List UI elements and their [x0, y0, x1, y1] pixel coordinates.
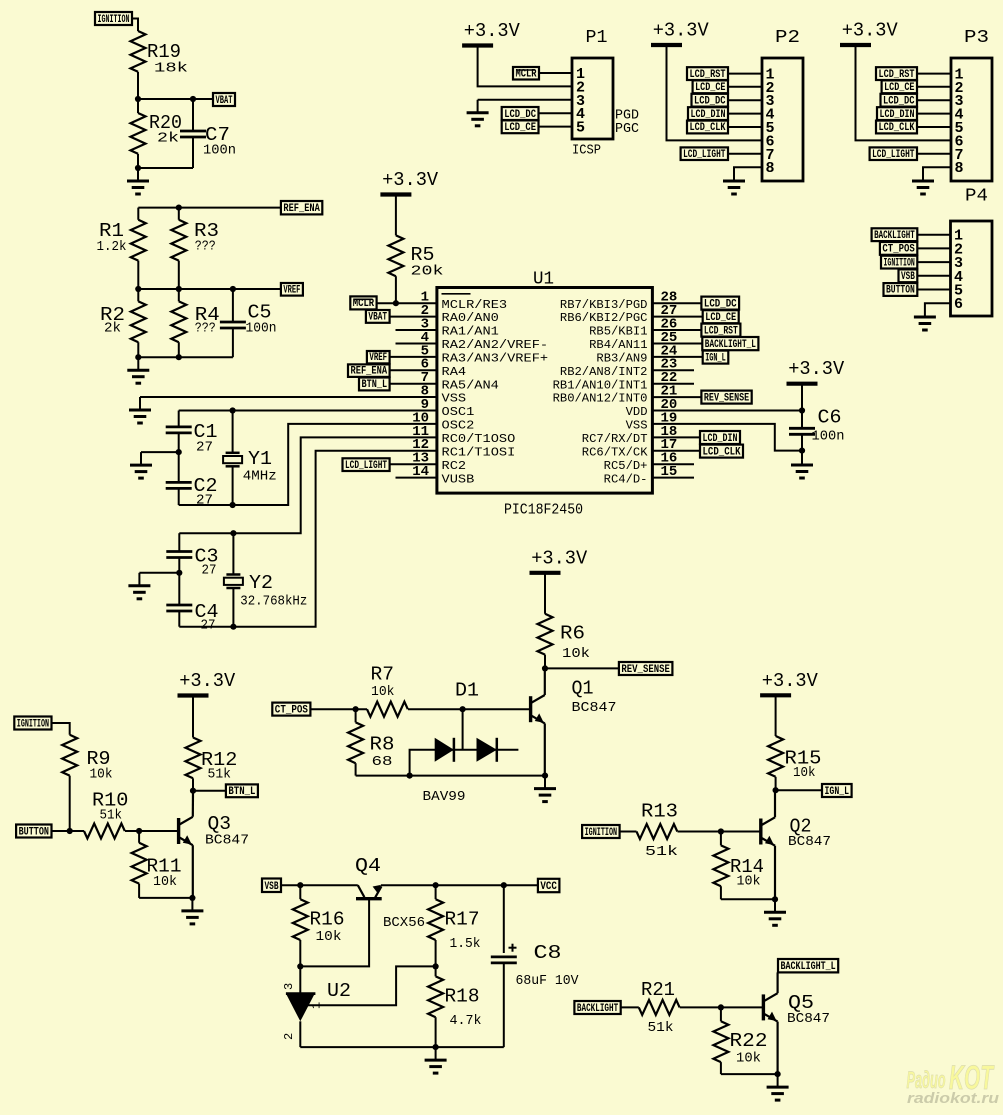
net label VREF	[281, 283, 303, 296]
wire U1 pin 24	[652, 356, 702, 358]
svg-text:RA4: RA4	[442, 365, 467, 379]
svg-text:R16: R16	[310, 909, 345, 931]
svg-text:P4: P4	[965, 187, 988, 207]
wire +3.3V to R5	[395, 195, 397, 236]
resistor R8	[355, 709, 357, 722]
net label BACKLIGHT at P4 pin 1	[872, 228, 918, 241]
wire IGNITION to R19	[132, 19, 138, 32]
svg-text:LCD_RST: LCD_RST	[879, 69, 915, 81]
resistor R13	[637, 824, 678, 839]
svg-text:???: ???	[195, 321, 216, 337]
wire P2 pin 8 to ground	[734, 166, 762, 169]
wire +3.3V to R15	[775, 695, 777, 736]
svg-text:27: 27	[196, 440, 213, 456]
power +3.3V at P1	[462, 43, 493, 47]
wire Q1 collector	[544, 668, 546, 695]
svg-text:3: 3	[282, 983, 296, 990]
capacitor C8 electrolytic	[503, 885, 505, 953]
wire C3/C4 midpoint to ground	[139, 572, 179, 574]
svg-text:LCD_LIGHT: LCD_LIGHT	[345, 460, 387, 472]
wire IGNITION to R9	[52, 723, 70, 735]
svg-text:VDD: VDD	[626, 405, 648, 419]
wire REF_ENA to U1 pin 6	[390, 369, 437, 371]
wire U1 pin 23 stub	[652, 369, 694, 371]
power +3.3V above C6	[787, 382, 818, 386]
svg-text:51k: 51k	[208, 767, 232, 783]
wire VSB to Q4 collector rail	[281, 884, 358, 886]
ground at C1/C2 midpoint	[140, 452, 142, 465]
wire LCD_LIGHT to U1 pin 13	[390, 463, 437, 465]
svg-text:BC847: BC847	[788, 834, 831, 850]
svg-text:LCD_CE: LCD_CE	[695, 82, 726, 94]
capacitor C7	[192, 99, 194, 131]
svg-text:27: 27	[201, 618, 216, 634]
wire U1 pin 28	[652, 302, 701, 304]
wire R13 to Q2 base	[678, 831, 761, 833]
svg-text:20k: 20k	[411, 263, 444, 279]
wire P3 pin 2	[917, 86, 951, 88]
svg-text:10k: 10k	[736, 1051, 761, 1067]
wire BACKLIGHT to R21	[621, 1006, 639, 1008]
svg-text:LCD_DIN: LCD_DIN	[691, 109, 726, 121]
wire REF_ENA rail	[138, 207, 281, 209]
net label BTN_L at pin 7	[359, 378, 390, 391]
svg-text:CT_POS: CT_POS	[882, 244, 915, 256]
svg-text:P2: P2	[775, 28, 800, 48]
capacitor C5	[232, 289, 234, 322]
wire P3 pin 7	[917, 153, 951, 155]
net label BACKLIGHT_L at pin 25	[702, 337, 758, 350]
svg-text:RC5/D+: RC5/D+	[604, 459, 648, 473]
svg-text:51k: 51k	[100, 808, 123, 824]
resistor R7	[367, 702, 408, 717]
ground at P4 pin 6	[924, 304, 926, 317]
net label BACKLIGHT at Q5	[574, 1001, 620, 1014]
wire U1 pin 22 stub	[652, 383, 694, 385]
resistor R15	[768, 736, 783, 777]
wire P4 pin 1	[917, 234, 950, 236]
crystal Y2	[232, 533, 234, 574]
svg-text:6: 6	[954, 296, 963, 313]
svg-text:LCD_DC: LCD_DC	[704, 298, 737, 310]
svg-text:27: 27	[196, 493, 213, 509]
svg-text:RC6/TX/CK: RC6/TX/CK	[582, 445, 649, 459]
wire +3.3V to R12	[192, 696, 194, 738]
svg-text:100n: 100n	[246, 321, 277, 337]
resistor R16	[299, 885, 301, 899]
wire R6 to REV_SENSE node	[544, 655, 546, 669]
svg-text:VCC: VCC	[540, 881, 557, 893]
svg-text:REV_SENSE: REV_SENSE	[704, 392, 750, 404]
wire P2 pin 5	[728, 126, 762, 128]
power +3.3V at P2	[651, 43, 682, 47]
wire Q4 bottom rail	[300, 1046, 504, 1048]
wire U1 pin 3 stub	[396, 329, 437, 331]
net label CT_POS	[272, 703, 310, 716]
svg-text:RB3/AN9: RB3/AN9	[596, 351, 647, 365]
net label IGNITION at Q3	[14, 717, 51, 730]
wire +3.3V to R6	[544, 573, 546, 614]
svg-text:18k: 18k	[154, 61, 188, 77]
wire BTN_L to U1 pin 7	[390, 383, 437, 385]
svg-text:R13: R13	[641, 801, 678, 823]
svg-text:BACKLIGHT: BACKLIGHT	[577, 1003, 619, 1015]
svg-text:4.7k: 4.7k	[450, 1013, 482, 1029]
svg-text:8: 8	[955, 160, 964, 177]
wire P4 pin 3	[917, 261, 950, 263]
wire U1 pin 21	[652, 396, 701, 398]
net label LCD_RST at P3 pin 1	[876, 67, 917, 80]
net label MCLR at P1 pin 1	[513, 67, 539, 80]
power +3.3V at P3	[840, 43, 871, 47]
wire P1 pin 5	[539, 126, 573, 128]
wire R11 to Q3 emitter node	[139, 897, 192, 899]
svg-text:10k: 10k	[371, 684, 395, 700]
net label LCD_RST at pin 26	[701, 324, 740, 337]
svg-text:1.2k: 1.2k	[97, 239, 127, 255]
ground at P3 pin 8	[922, 168, 924, 181]
svg-text:REF_ENA: REF_ENA	[351, 366, 388, 378]
net label VSB at P4 pin 4	[899, 269, 918, 282]
svg-text:RC7/RX/DT: RC7/RX/DT	[582, 432, 648, 446]
ground at P2 pin 8	[733, 168, 735, 181]
svg-text:RA5/AN4: RA5/AN4	[442, 378, 499, 392]
ground below R18	[435, 1047, 437, 1060]
net label BTN_L at Q3	[226, 784, 258, 797]
wire P3 pin 4	[917, 113, 951, 115]
svg-text:P3: P3	[964, 28, 989, 48]
wire Q2 collector	[774, 790, 776, 817]
resistor R14	[720, 832, 722, 846]
net label LCD_DC at pin 28	[701, 297, 739, 310]
svg-text:VBAT: VBAT	[368, 312, 387, 324]
svg-text:ICSP: ICSP	[572, 143, 601, 159]
wire P2 pin 4	[728, 113, 762, 115]
wire OSC1 rail pin 9	[179, 410, 437, 412]
svg-text:LCD_CLK: LCD_CLK	[690, 122, 726, 134]
svg-text:IGN_L: IGN_L	[825, 786, 850, 798]
svg-text:VSB: VSB	[901, 271, 915, 283]
wire U1 pin 20 VDD to +3.3V C6 rail	[652, 410, 802, 412]
svg-text:RB6/KBI2/PGC: RB6/KBI2/PGC	[560, 311, 648, 325]
net label VBAT	[213, 93, 235, 106]
wire P3 pin 5	[917, 126, 951, 128]
svg-text:+3.3V: +3.3V	[464, 20, 521, 42]
svg-text:100n: 100n	[203, 143, 236, 159]
net label LCD_DIN at P3 pin 4	[877, 107, 917, 120]
ground below Q3	[191, 898, 193, 911]
svg-text:BUTTON: BUTTON	[886, 285, 915, 297]
svg-text:VBAT: VBAT	[216, 95, 233, 107]
svg-text:LCD_CE: LCD_CE	[884, 82, 915, 94]
svg-text:BACKLIGHT: BACKLIGHT	[874, 230, 915, 242]
svg-text:LCD_LIGHT: LCD_LIGHT	[683, 149, 726, 161]
wire U1 pin 27	[652, 316, 702, 318]
svg-text:BACKLIGHT_L: BACKLIGHT_L	[781, 961, 836, 973]
resistor R19	[131, 31, 146, 72]
svg-text:Y2: Y2	[249, 572, 273, 594]
svg-text:2k: 2k	[104, 321, 121, 337]
net label LCD_CLK at pin 17	[700, 445, 743, 458]
wire VREF to U1 pin 5	[390, 356, 437, 358]
wire Q4 emitter rail to R17/C8/VCC	[381, 884, 538, 886]
resistor R2	[137, 289, 139, 301]
svg-text:RC0/T1OSO: RC0/T1OSO	[442, 432, 516, 446]
wire R14 to Q2 emitter node	[721, 898, 775, 900]
net label VSB at Q4	[262, 879, 281, 893]
wire R7 to D1 node and Q1 base	[408, 708, 531, 710]
transistor Q2 BC847	[759, 819, 762, 845]
wire P1 pin 1	[539, 72, 572, 74]
wire MCLR to U1 pin 1	[377, 302, 437, 304]
svg-text:BUTTON: BUTTON	[19, 826, 49, 838]
wire U1 pin 16 stub	[652, 463, 694, 465]
net label LCD_LIGHT at P2 pin 7	[681, 147, 728, 160]
wire BUTTON to R10	[52, 830, 85, 832]
resistor R1	[137, 208, 139, 220]
svg-text:Q4: Q4	[355, 855, 381, 877]
wire VBAT to U1 pin 2	[390, 316, 437, 318]
transistor Q1 BC847	[529, 696, 532, 722]
svg-text:C8: C8	[534, 942, 562, 964]
wire OSC2 rail pin 10	[179, 424, 437, 505]
net label LCD_CE at P3 pin 2	[882, 80, 917, 93]
svg-text:MCLR/RE3: MCLR/RE3	[442, 298, 508, 312]
resistor R17	[435, 885, 437, 899]
svg-text:Y1: Y1	[248, 448, 272, 470]
wire IGNITION to R13	[620, 831, 637, 833]
wire R17/R18 node	[433, 963, 439, 969]
net label MCLR at pin 1	[350, 296, 376, 309]
wire R21 to Q5 base	[680, 1006, 764, 1008]
svg-text:VSS: VSS	[442, 392, 467, 406]
svg-text:10k: 10k	[562, 646, 590, 662]
svg-text:+3.3V: +3.3V	[179, 670, 236, 692]
ground below Q1 emitter	[544, 776, 546, 789]
capacitor C3	[178, 533, 180, 551]
svg-text:+3.3V: +3.3V	[788, 358, 845, 380]
svg-text:IGNITION: IGNITION	[884, 257, 915, 269]
net label REF_ENA	[281, 201, 322, 214]
svg-text:IGNITION: IGNITION	[17, 718, 49, 730]
wire R15 to IGN_L node	[775, 777, 777, 790]
net label LCD_CLK at P2 pin 5	[687, 121, 728, 134]
transistor Q4 BCX56	[356, 897, 382, 900]
svg-text:R8: R8	[370, 734, 395, 756]
wire +3.3V to P2 pin 6	[667, 45, 763, 140]
resistor R5	[388, 235, 403, 276]
svg-text:D1: D1	[455, 680, 479, 702]
net label IGN_L at Q2	[822, 784, 852, 797]
svg-text:LCD_DIN: LCD_DIN	[703, 433, 738, 445]
wire bottom rail R2/R4/C5	[138, 356, 233, 358]
connector P3 body	[951, 58, 992, 181]
svg-text:51k: 51k	[645, 844, 678, 860]
svg-text:VREF: VREF	[369, 352, 387, 364]
wire P1 pin 4	[539, 112, 573, 114]
svg-text:BAV99: BAV99	[423, 789, 466, 805]
resistor R4	[178, 289, 180, 301]
resistor R9	[62, 735, 77, 776]
wire Q4 base down to R16 node	[300, 900, 369, 967]
svg-text:RA3/AN3/VREF+: RA3/AN3/VREF+	[442, 351, 549, 365]
svg-text:LCD_RST: LCD_RST	[690, 69, 726, 81]
net label BUTTON	[16, 825, 51, 838]
resistor R22	[720, 1007, 722, 1021]
svg-text:4MHz: 4MHz	[243, 468, 277, 484]
svg-text:OSC2: OSC2	[442, 419, 475, 433]
svg-text:68uF 10V: 68uF 10V	[516, 973, 580, 989]
svg-text:radiokot.ru: radiokot.ru	[907, 1090, 999, 1107]
net label LCD_CE at pin 27	[703, 310, 739, 323]
wire P2 pin 7	[728, 153, 762, 155]
ground at C3/C4 midpoint	[138, 573, 140, 586]
svg-text:OSC1: OSC1	[442, 405, 475, 419]
wire P1 pin 3 to ground	[478, 99, 572, 101]
wire U1 pin 25	[652, 343, 702, 345]
wire U1 pin 15 stub	[652, 477, 694, 479]
net label IGNITION at Q2	[582, 825, 620, 838]
resistor R21	[639, 1000, 680, 1015]
wire U2 ref pin to R17/R18 node	[302, 966, 436, 1005]
svg-text:RA2/AN2/VREF-: RA2/AN2/VREF-	[442, 338, 549, 352]
svg-text:PIC18F2450: PIC18F2450	[504, 502, 583, 519]
net label BUTTON at P4 pin 5	[884, 283, 918, 296]
wire VREF rail	[138, 288, 281, 290]
svg-text:PGC: PGC	[615, 121, 639, 137]
svg-text:RB0/AN12/INT0: RB0/AN12/INT0	[553, 392, 648, 406]
wire +3.3V to C6	[801, 384, 803, 428]
svg-text:27: 27	[202, 563, 217, 579]
power +3.3V above R12	[178, 693, 209, 697]
transistor Q3 BC847	[177, 818, 180, 844]
wire Q2 emitter down	[774, 846, 776, 900]
net label IGN_L at pin 24	[703, 351, 729, 364]
net label LCD_CE at P1 pin 5	[502, 120, 539, 133]
svg-text:P1: P1	[586, 28, 608, 48]
wire P2 pin 3	[728, 99, 762, 101]
svg-text:10k: 10k	[737, 874, 761, 890]
svg-text:RB4/AN11: RB4/AN11	[589, 338, 647, 352]
svg-text:VREF: VREF	[283, 284, 300, 296]
svg-text:R18: R18	[445, 986, 480, 1008]
wire Q3 emitter down	[192, 845, 194, 898]
resistor R18	[428, 976, 443, 1017]
wire P3 pin 8 to ground	[923, 166, 951, 169]
net label LCD_RST at P2 pin 1	[687, 67, 728, 80]
svg-text:VSS: VSS	[626, 419, 648, 433]
wire U1 pin 17	[652, 450, 700, 452]
svg-text:U2: U2	[327, 980, 351, 1002]
net label CT_POS at P4 pin 2	[880, 242, 917, 255]
svg-text:VUSB: VUSB	[442, 472, 475, 486]
wire C1/C2 midpoint to ground	[141, 451, 179, 453]
svg-text:RA0/AN0: RA0/AN0	[442, 311, 499, 325]
resistor R6	[538, 614, 553, 655]
svg-text:Q1: Q1	[572, 678, 594, 700]
resistor R11	[138, 831, 140, 843]
svg-text:BTN_L: BTN_L	[228, 786, 255, 798]
net label BACKLIGHT_L at Q5 collector	[778, 959, 838, 972]
net label LCD_DIN at pin 18	[700, 431, 740, 444]
svg-text:LCD_DC: LCD_DC	[694, 95, 726, 107]
capacitor C6	[789, 427, 815, 430]
connector P2 body	[762, 58, 803, 181]
svg-text:LCD_DIN: LCD_DIN	[880, 109, 915, 121]
svg-text:IGNITION: IGNITION	[585, 827, 618, 839]
svg-text:10k: 10k	[316, 929, 342, 945]
ground at P1 pin 3	[477, 100, 479, 113]
connector P1 body	[572, 58, 613, 139]
svg-text:RB2/AN8/INT2: RB2/AN8/INT2	[560, 365, 648, 379]
svg-text:LCD_DC: LCD_DC	[504, 109, 536, 121]
svg-text:BACKLIGHT_L: BACKLIGHT_L	[705, 339, 756, 351]
power +3.3V above R5	[380, 192, 411, 196]
svg-text:1.5k: 1.5k	[450, 936, 481, 952]
net label REV_SENSE	[619, 662, 673, 675]
crystal Y1	[232, 411, 234, 453]
net label LCD_DC at P2 pin 3	[692, 94, 729, 107]
watermark RadioKOT logo	[907, 1059, 1000, 1107]
net label LCD_DC at P1 pin 4	[502, 107, 539, 120]
svg-text:RC1/T1OSI: RC1/T1OSI	[442, 445, 516, 459]
svg-text:RA1/AN1: RA1/AN1	[442, 325, 499, 339]
svg-text:BCX56: BCX56	[383, 915, 425, 931]
svg-text:???: ???	[195, 239, 216, 255]
wire R22 to Q5 emitter node	[721, 1073, 778, 1075]
wire Q5 emitter down	[776, 1022, 778, 1075]
svg-text:2: 2	[282, 1033, 296, 1040]
ground below R2	[137, 357, 139, 370]
power +3.3V above R15	[760, 693, 791, 697]
wire Y2 top rail pin 11	[179, 437, 437, 533]
svg-text:LCD_LIGHT: LCD_LIGHT	[872, 149, 915, 161]
connector P4 body	[951, 221, 993, 316]
wire U1 pin 4 stub	[396, 343, 437, 345]
wire CT_POS to R7	[310, 708, 367, 710]
svg-text:R17: R17	[445, 909, 480, 931]
wire Q3 collector	[192, 791, 194, 817]
svg-text:51k: 51k	[648, 1020, 674, 1036]
svg-text:BC847: BC847	[572, 700, 617, 716]
net label IGNITION	[95, 12, 132, 25]
svg-text:C6: C6	[818, 407, 842, 429]
wire P4 pin 4	[917, 275, 950, 277]
wire P4 pin 2	[917, 247, 950, 249]
svg-text:RB7/KBI3/PGD: RB7/KBI3/PGD	[560, 298, 648, 312]
ground below Q2	[774, 899, 776, 912]
ground below Q5	[777, 1074, 779, 1087]
wire P4 pin 5	[917, 289, 950, 291]
svg-text:LCD_CLK: LCD_CLK	[703, 446, 741, 458]
ground below C6	[801, 451, 803, 452]
svg-text:10k: 10k	[793, 765, 816, 781]
svg-text:LCD_DC: LCD_DC	[883, 95, 915, 107]
svg-text:5: 5	[576, 120, 585, 137]
ground below pin 8 wire	[139, 397, 141, 410]
wire R20/C7 to ground node	[137, 154, 139, 168]
wire P2 pin 1	[728, 73, 762, 75]
net label VCC	[538, 879, 560, 892]
capacitor C1	[178, 411, 180, 427]
svg-text:BTN_L: BTN_L	[362, 379, 388, 391]
capacitor C4	[178, 573, 180, 605]
wire Q1 emitter to ground rail	[544, 723, 546, 776]
net label LCD_CLK at P3 pin 5	[876, 121, 917, 134]
shunt regulator U2	[299, 966, 301, 993]
svg-text:LCD_CE: LCD_CE	[504, 122, 536, 134]
net label VREF at pin 5	[367, 351, 390, 363]
